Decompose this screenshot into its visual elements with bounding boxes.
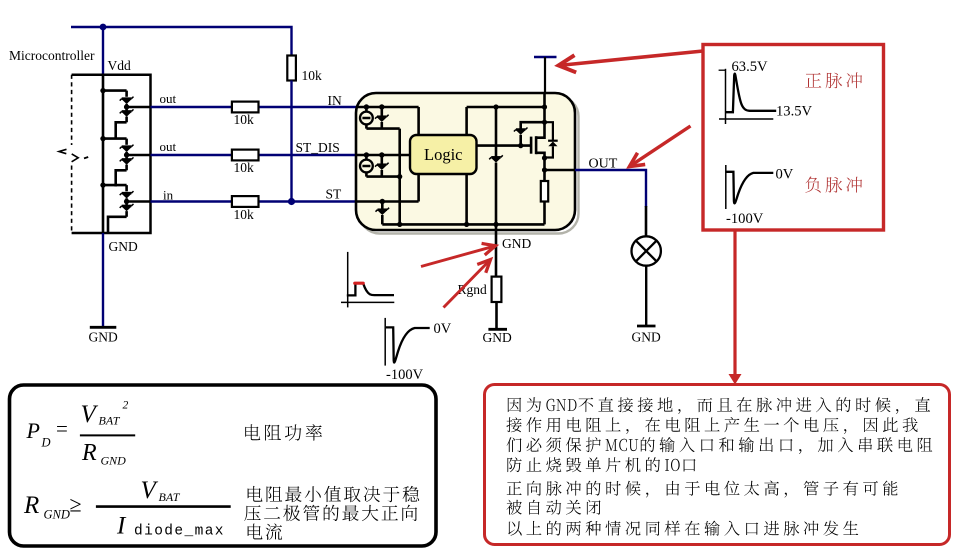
break squiggle on dashed edge	[59, 149, 88, 162]
waveform positive pulse (box)	[719, 69, 777, 124]
power MOSFET Q1	[531, 120, 547, 161]
-100V label (small)	[386, 367, 424, 383]
MCU box outline	[72, 75, 151, 233]
resistor 10k series R4	[232, 196, 259, 222]
lamp load	[632, 236, 661, 265]
red arrow to GND pin (lower)	[444, 260, 491, 308]
red arrow to supply bar	[559, 51, 704, 72]
svg-text:GND: GND	[632, 330, 661, 345]
out pin label 1	[160, 91, 177, 106]
formula R_GND >= V_BAT / I_diode_max	[23, 477, 231, 540]
svg-text:P: P	[26, 418, 40, 443]
svg-text:10k: 10k	[302, 68, 323, 83]
0V label (small)	[434, 321, 452, 337]
waveform positive pulse (small)	[341, 252, 394, 308]
svg-text:IN: IN	[328, 93, 342, 108]
ground symbol lamp	[632, 326, 661, 345]
IC input cell ST	[356, 174, 419, 224]
13.5V label	[776, 104, 813, 120]
Microcontroller label	[9, 48, 95, 63]
ESD diode pair cell 2 (out)	[100, 136, 150, 187]
svg-text:BAT: BAT	[159, 490, 181, 504]
wire internal bus risers	[397, 107, 469, 227]
ST_DIS pin label	[296, 140, 340, 155]
svg-text:2: 2	[123, 399, 129, 411]
wire IC bottom ground rail	[382, 222, 544, 227]
resistor internal pull-down	[541, 170, 548, 224]
IC chip drop shadow	[360, 97, 579, 234]
ESD diode pair cell 1 (out)	[100, 88, 150, 139]
pulse spec box	[703, 45, 884, 231]
resistor R1 10k pull-up vertical	[287, 56, 322, 84]
IN pin label	[328, 93, 342, 108]
svg-text:10k: 10k	[234, 160, 255, 175]
IC chip body	[356, 93, 575, 230]
wire net to IC pin 3	[151, 200, 357, 202]
svg-text:-100V: -100V	[726, 211, 764, 227]
wire gate drive	[477, 144, 532, 147]
waveform negative pulse (box)	[726, 165, 774, 209]
out pin label 2	[160, 139, 177, 154]
svg-text:ST: ST	[326, 187, 343, 202]
wire MCU GND drop	[102, 233, 104, 327]
wire Vdd rail inside MCU	[102, 75, 105, 233]
svg-text:Microcontroller: Microcontroller	[9, 48, 95, 63]
wire Rgnd to ground	[495, 302, 498, 329]
note text 因为GND不直接接地...	[506, 397, 932, 536]
wire pull-up to ST net	[290, 81, 292, 202]
wire GND pin down	[495, 224, 498, 276]
red arrow to OUT node	[630, 126, 691, 167]
supply T-bar	[534, 57, 557, 93]
IC input cell ST_DIS	[356, 152, 419, 176]
svg-text:≥: ≥	[70, 492, 82, 517]
svg-text:GND: GND	[89, 330, 118, 345]
wire net to IC pin 2	[151, 154, 357, 156]
resistor 10k series R2	[232, 102, 259, 127]
svg-text:13.5V: 13.5V	[776, 104, 813, 120]
wire Vdd top rail	[71, 27, 292, 56]
ESD diode pair cell 3 (in)	[100, 182, 150, 233]
wire OUT inside chip	[545, 169, 576, 172]
wire net to IC pin 1	[151, 106, 357, 108]
svg-text:GND: GND	[109, 239, 138, 254]
ST pin label	[326, 187, 343, 202]
svg-text:10k: 10k	[234, 112, 255, 127]
note box	[485, 385, 950, 545]
wire IC top supply rail	[467, 104, 548, 109]
red arrow to GND pin (upper)	[421, 244, 496, 267]
OUT label	[589, 157, 618, 172]
ground symbol Rgnd	[483, 329, 512, 345]
ground symbol MCU	[89, 327, 118, 344]
body diode	[545, 122, 558, 157]
resistor Rgnd	[458, 277, 502, 302]
formula P_D = V_BAT^2 / R_GND	[26, 399, 136, 467]
IC input cell IN	[356, 104, 419, 128]
label 电阻功率	[245, 424, 322, 441]
GND pin label	[502, 236, 531, 251]
svg-text:R: R	[23, 492, 39, 519]
-100V label (box)	[726, 211, 764, 227]
svg-text:BAT: BAT	[99, 414, 121, 428]
svg-text:GND: GND	[44, 508, 70, 522]
label 电阻最小值取决于稳压二极管的最大正向电流	[244, 486, 419, 540]
wire lamp to ground	[645, 266, 647, 326]
formula box	[10, 385, 437, 546]
svg-text:=: =	[56, 417, 68, 441]
63.5V label	[732, 59, 769, 75]
svg-text:0V: 0V	[434, 321, 452, 337]
wire Vdd drop to MCU	[102, 27, 104, 76]
svg-text:out: out	[160, 91, 177, 106]
wire OUT net	[575, 170, 646, 236]
waveform negative pulse (small)	[385, 318, 430, 366]
svg-text:63.5V: 63.5V	[732, 59, 769, 75]
svg-text:ST_DIS: ST_DIS	[296, 140, 340, 155]
red arrow down to note box	[729, 230, 742, 385]
clamp zener center	[489, 107, 503, 224]
MCU GND label (box bottom)	[109, 239, 138, 254]
svg-text:Logic: Logic	[424, 145, 463, 164]
wire drain to top pin	[543, 93, 546, 122]
svg-text:GND: GND	[101, 454, 127, 468]
svg-text:10k: 10k	[234, 207, 255, 222]
svg-text:out: out	[160, 139, 177, 154]
positive pulse title 正脉冲	[805, 72, 862, 88]
node ST junction	[288, 198, 295, 205]
in pin label 3	[163, 188, 174, 203]
node Vdd junction	[100, 24, 107, 31]
Vdd label	[108, 58, 131, 73]
svg-text:R: R	[81, 440, 97, 466]
resistor 10k series R3	[232, 150, 259, 175]
svg-text:GND: GND	[502, 236, 531, 251]
svg-text:D: D	[41, 436, 51, 450]
svg-text:Vdd: Vdd	[108, 58, 131, 73]
gate protection zener	[514, 122, 545, 148]
svg-text:GND: GND	[483, 330, 512, 345]
svg-text:0V: 0V	[776, 167, 794, 183]
svg-text:in: in	[163, 188, 174, 203]
svg-text:-100V: -100V	[386, 367, 424, 383]
svg-text:diode_max: diode_max	[134, 524, 225, 540]
wire source to OUT node	[542, 158, 547, 173]
Logic block	[410, 135, 477, 174]
negative pulse title 负脉冲	[805, 177, 862, 193]
0V label (box)	[776, 167, 794, 183]
